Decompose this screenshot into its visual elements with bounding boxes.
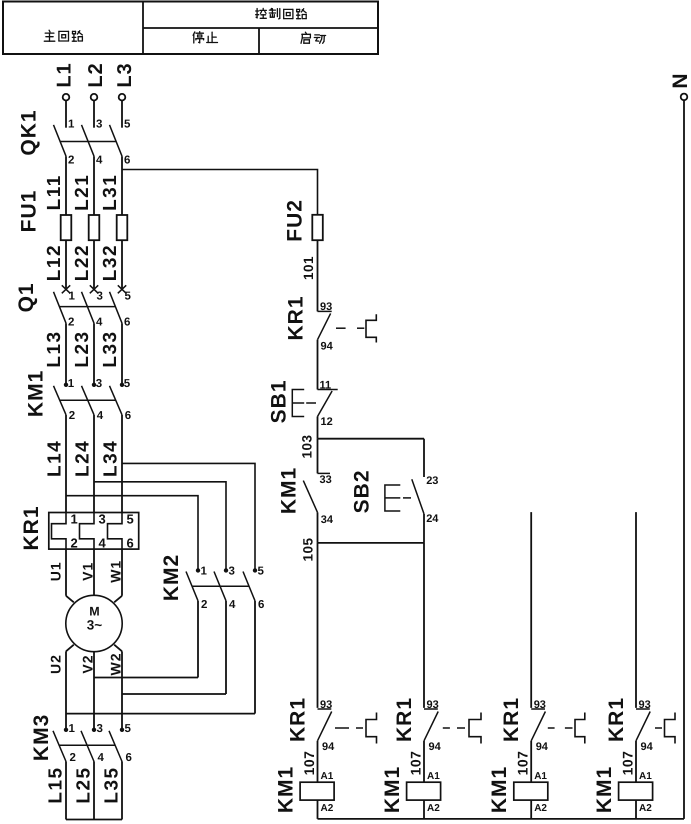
svg-text:101: 101 — [301, 256, 316, 280]
svg-text:2: 2 — [69, 410, 75, 422]
svg-text:3: 3 — [229, 565, 235, 577]
svg-text:L23: L23 — [72, 330, 93, 367]
svg-text:KM1: KM1 — [488, 766, 511, 813]
svg-text:KM1: KM1 — [278, 467, 301, 514]
svg-text:L12: L12 — [44, 244, 65, 281]
svg-text:L31: L31 — [100, 174, 121, 211]
svg-text:L35: L35 — [102, 766, 123, 803]
svg-text:A2: A2 — [534, 803, 547, 814]
svg-text:12: 12 — [321, 416, 333, 428]
svg-text:KM1: KM1 — [25, 370, 48, 417]
svg-text:3: 3 — [96, 119, 102, 131]
svg-text:33: 33 — [320, 474, 332, 486]
svg-text:5: 5 — [125, 723, 132, 735]
svg-text:1: 1 — [69, 291, 76, 303]
svg-text:KR1: KR1 — [20, 505, 43, 550]
svg-text:105: 105 — [301, 537, 316, 561]
svg-text:4: 4 — [98, 752, 105, 764]
svg-text:107: 107 — [408, 751, 424, 776]
svg-text:A2: A2 — [639, 803, 652, 814]
svg-text:A1: A1 — [321, 771, 334, 782]
svg-text:94: 94 — [321, 340, 334, 352]
svg-text:94: 94 — [429, 741, 442, 753]
svg-text:107: 107 — [515, 751, 531, 776]
svg-text:L2: L2 — [85, 62, 107, 87]
svg-text:KR1: KR1 — [605, 697, 628, 742]
svg-text:6: 6 — [125, 410, 131, 422]
svg-text:L22: L22 — [72, 244, 93, 281]
svg-text:2: 2 — [70, 752, 76, 764]
svg-text:L11: L11 — [44, 174, 65, 210]
svg-text:A1: A1 — [534, 771, 547, 782]
svg-text:KM1: KM1 — [593, 766, 616, 813]
svg-text:103: 103 — [300, 434, 315, 458]
svg-text:A1: A1 — [427, 771, 440, 782]
svg-text:2: 2 — [68, 154, 74, 166]
svg-text:KR1: KR1 — [287, 697, 310, 742]
svg-text:4: 4 — [96, 316, 103, 328]
svg-text:6: 6 — [124, 316, 130, 328]
svg-text:1: 1 — [201, 565, 208, 577]
svg-text:4: 4 — [96, 154, 103, 166]
svg-text:W2: W2 — [108, 653, 124, 676]
svg-text:5: 5 — [124, 119, 131, 131]
svg-text:L15: L15 — [46, 766, 67, 803]
svg-text:L24: L24 — [73, 440, 94, 477]
svg-text:5: 5 — [127, 512, 134, 527]
svg-text:94: 94 — [322, 741, 335, 753]
svg-text:2: 2 — [201, 599, 207, 611]
svg-text:24: 24 — [426, 513, 439, 525]
svg-text:L13: L13 — [44, 330, 65, 367]
svg-text:A2: A2 — [321, 803, 334, 814]
svg-text:A1: A1 — [639, 771, 652, 782]
svg-text:2: 2 — [71, 536, 78, 551]
svg-text:QK1: QK1 — [18, 109, 41, 155]
svg-text:KM3: KM3 — [30, 714, 53, 761]
svg-text:4: 4 — [229, 599, 236, 611]
svg-text:KR1: KR1 — [500, 697, 523, 742]
svg-text:93: 93 — [427, 699, 439, 711]
svg-text:N: N — [669, 72, 691, 88]
svg-text:KM2: KM2 — [160, 554, 183, 601]
svg-text:3: 3 — [97, 291, 103, 303]
svg-text:L3: L3 — [114, 62, 136, 87]
svg-text:6: 6 — [124, 154, 130, 166]
svg-text:U1: U1 — [48, 561, 64, 581]
svg-text:FU2: FU2 — [284, 199, 307, 242]
svg-text:93: 93 — [534, 699, 546, 711]
svg-text:4: 4 — [99, 536, 107, 551]
svg-text:L25: L25 — [74, 766, 95, 803]
svg-text:93: 93 — [639, 699, 651, 711]
svg-text:V2: V2 — [80, 654, 96, 673]
svg-text:SB1: SB1 — [268, 379, 291, 423]
svg-text:Q1: Q1 — [15, 282, 38, 312]
svg-text:34: 34 — [321, 514, 334, 526]
svg-text:4: 4 — [97, 410, 104, 422]
svg-text:3~: 3~ — [87, 618, 103, 633]
svg-text:2: 2 — [68, 316, 74, 328]
svg-text:L33: L33 — [100, 330, 121, 367]
svg-text:L32: L32 — [100, 244, 121, 281]
svg-text:5: 5 — [124, 378, 131, 390]
svg-text:KR1: KR1 — [393, 697, 416, 742]
svg-text:6: 6 — [127, 536, 134, 551]
svg-text:L14: L14 — [45, 440, 66, 477]
svg-text:1: 1 — [69, 723, 76, 735]
svg-text:5: 5 — [258, 565, 265, 577]
svg-text:L1: L1 — [54, 62, 76, 87]
svg-text:SB2: SB2 — [351, 469, 374, 513]
svg-text:U2: U2 — [48, 654, 64, 674]
svg-text:23: 23 — [426, 475, 438, 487]
svg-text:KR1: KR1 — [285, 295, 308, 340]
svg-text:FU1: FU1 — [18, 190, 41, 233]
svg-text:3: 3 — [96, 378, 102, 390]
svg-text:3: 3 — [99, 512, 106, 527]
svg-text:1: 1 — [68, 119, 75, 131]
svg-text:93: 93 — [320, 699, 332, 711]
svg-text:6: 6 — [126, 752, 132, 764]
svg-text:L34: L34 — [101, 440, 122, 477]
svg-text:V1: V1 — [80, 562, 96, 581]
svg-text:M: M — [89, 605, 99, 619]
svg-text:94: 94 — [536, 741, 549, 753]
svg-text:W1: W1 — [108, 560, 124, 583]
svg-text:107: 107 — [620, 751, 636, 776]
svg-text:3: 3 — [97, 723, 103, 735]
svg-text:5: 5 — [125, 291, 132, 303]
svg-text:94: 94 — [641, 741, 654, 753]
svg-text:KM1: KM1 — [381, 766, 404, 813]
svg-text:KM1: KM1 — [275, 766, 298, 813]
svg-text:1: 1 — [71, 512, 78, 527]
svg-text:A2: A2 — [427, 803, 440, 814]
svg-text:11: 11 — [320, 380, 332, 392]
svg-text:1: 1 — [68, 378, 75, 390]
svg-text:6: 6 — [258, 599, 264, 611]
svg-text:93: 93 — [320, 301, 332, 313]
svg-text:L21: L21 — [72, 174, 93, 211]
svg-text:107: 107 — [301, 751, 317, 776]
